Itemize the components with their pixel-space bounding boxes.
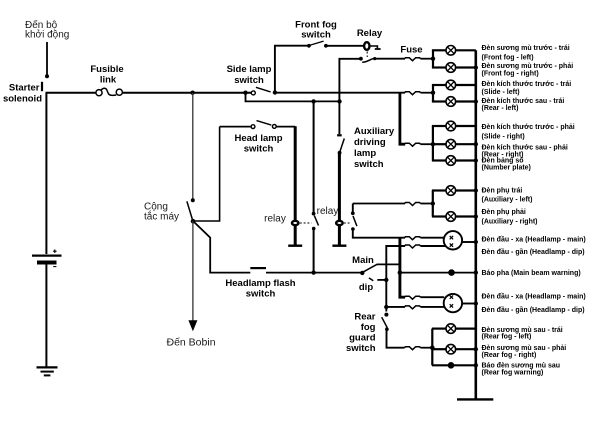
wire: fuse to right side bracket: [421, 143, 433, 145]
svg-text:switch: switch: [234, 75, 264, 86]
node: lamp label 8: [482, 188, 533, 204]
switch: dimmer Main/dip: [360, 264, 377, 281]
wire: dip rail to headlamp2 fuse: [386, 306, 405, 308]
node: lamp label 16: [482, 345, 567, 359]
svg-text:switch: switch: [346, 343, 376, 354]
svg-text:switch: switch: [301, 30, 331, 41]
junction: headlamp2 dip tee: [384, 305, 388, 309]
junction: right side bracket entry: [431, 142, 435, 146]
wire: aux lamp feed: [353, 203, 405, 205]
wire: headlamp2 to bus: [462, 301, 478, 305]
node: Đến bộ khởi động (to starter) label: [25, 19, 69, 41]
relay RLY2 headlamp coil: [292, 221, 299, 225]
svg-text:(Front fog - left): (Front fog - left): [482, 55, 534, 62]
node: Side lamp switch label: [227, 64, 272, 86]
wire: relay3 coil end bar: [332, 244, 346, 246]
indicator: main beam warning lamp: [448, 269, 455, 276]
wire: headlamp1 to bus: [462, 240, 478, 244]
wire: bold drop to right-side lamp fuse: [400, 93, 405, 145]
wire: coil return with end bar: [370, 46, 381, 49]
junction: rear fog bracket entry: [430, 345, 435, 350]
lamp: side rear left: [432, 97, 478, 107]
fuse F5 headlamp1 main: [405, 237, 421, 240]
relay RLY3 aux coil: [336, 221, 343, 225]
switch: ignition Cộng tắc máy: [187, 198, 195, 223]
svg-text:Headlamp flash: Headlamp flash: [225, 278, 295, 289]
junction: side bracket entry: [431, 91, 435, 95]
node: Auxiliary driving lamp switch label: [354, 126, 395, 170]
svg-text:dip: dip: [359, 282, 373, 293]
svg-text:(Auxiliary - left): (Auxiliary - left): [482, 197, 533, 204]
svg-text:solenoid: solenoid: [3, 94, 42, 105]
fuse F9 rear fog: [405, 347, 421, 350]
wire: always-hot lower feed: [246, 93, 340, 102]
ground: bus earth bar: [457, 398, 493, 400]
svg-text:(Rear fog - left): (Rear fog - left): [482, 334, 532, 341]
svg-text:Đèn đầu - xa (Headlamp - main): Đèn đầu - xa (Headlamp - main): [482, 234, 586, 243]
ground: battery earth: [37, 367, 58, 375]
switch: auxiliary driving lamp switch: [337, 135, 344, 154]
svg-text:relay: relay: [264, 214, 286, 225]
lamp: headlamp left H1: [444, 231, 462, 249]
svg-text:lamp: lamp: [354, 148, 376, 159]
junction: relay2 feed tap: [337, 99, 341, 103]
svg-text:(Slide - right): (Slide - right): [482, 134, 525, 141]
svg-text:(Rear fog - right): (Rear fog - right): [482, 352, 537, 359]
fuse F3 side lamps right: [405, 143, 421, 146]
wire: side lamp bracket right trio: [432, 126, 434, 161]
junction: aux bracket entry: [431, 201, 435, 205]
indicator: rear fog warning lamp: [432, 362, 478, 369]
battery BT1: [32, 249, 62, 266]
wire: to front fog fuse: [374, 58, 405, 60]
fuse F8 headlamp2 dip: [405, 306, 421, 309]
starter solenoid terminal bar: [41, 82, 43, 91]
node: lamp label 15: [482, 327, 563, 341]
switch: relay3 aux contact: [351, 211, 357, 230]
junction: warning on bus: [474, 270, 478, 274]
wire: relay2 contact feed: [313, 101, 315, 212]
svg-text:Đèn đầu - gần (Headlamp - dip): Đèn đầu - gần (Headlamp - dip): [482, 305, 585, 314]
switch: headlamp flash switch bar: [250, 267, 266, 269]
svg-text:switch: switch: [246, 289, 276, 300]
node: lamp label 7: [482, 157, 531, 172]
fusible link FL1: [96, 88, 123, 96]
svg-text:(Slide - left): (Slide - left): [482, 89, 520, 96]
fuse F2 side lamps left: [405, 92, 421, 95]
svg-text:Fuse: Fuse: [400, 45, 422, 56]
svg-text:Đèn kích thước trước - trái: Đèn kích thước trước - trái: [482, 81, 572, 88]
svg-text:guard: guard: [349, 333, 376, 344]
wire: relay3 contact upper: [352, 204, 354, 213]
fuse F6 headlamp1 dip: [405, 245, 421, 248]
wire: main hot bus (battery to fusible link): [46, 92, 97, 94]
arrow: to bobin: [188, 320, 197, 331]
lamp: front fog left: [432, 46, 476, 56]
wire: fuse to headlamp2 dip: [421, 306, 447, 308]
svg-text:Đèn đầu - xa (Headlamp - main): Đèn đầu - xa (Headlamp - main): [482, 291, 586, 300]
junction: fog bracket entry: [431, 57, 435, 61]
wire: fog switch to relay coil: [326, 45, 364, 47]
wire: dimmer common: [266, 272, 362, 274]
svg-text:driving: driving: [354, 137, 386, 148]
wire: fuse to aux bracket: [421, 203, 433, 205]
svg-text:(Number plate): (Number plate): [482, 165, 531, 172]
wire: dip rail: [386, 246, 405, 312]
wire: fuse to headlamp1 main: [421, 237, 445, 239]
junction: warning tap on main rail: [398, 270, 403, 275]
svg-text:Đèn sương mù trước - trái: Đèn sương mù trước - trái: [482, 45, 570, 52]
svg-text:Đến Bobin: Đến Bobin: [167, 337, 216, 349]
wire: main beam warning: [400, 272, 476, 274]
switch: relay2 headlamp contact: [312, 212, 319, 231]
wire: dimmer common (flash side): [209, 272, 250, 274]
svg-text:Đèn kích thước trước - phải: Đèn kích thước trước - phải: [482, 124, 575, 131]
junction: relay2 output on dimmer feed: [311, 270, 315, 274]
wire: fuse to fog lamp bracket: [421, 58, 434, 60]
node: lamp label 4: [482, 98, 565, 112]
wire: fuse to headlamp2 main: [421, 296, 445, 298]
node: Starter solenoid label: [3, 83, 42, 105]
wire: fuse to rear fog bracket: [421, 347, 433, 349]
junction: dip contact on dip rail: [384, 278, 388, 282]
lamp: side front right: [432, 121, 476, 131]
svg-text:Đèn sương mù sau - phải: Đèn sương mù sau - phải: [482, 345, 567, 352]
wire: relay2 coil end bar: [288, 244, 302, 246]
svg-text:switch: switch: [244, 144, 274, 155]
wire: head lamp switch to relay2 coil: [294, 126, 297, 245]
svg-text:switch: switch: [354, 159, 384, 170]
dashed actuator link RLY1: [366, 52, 368, 58]
wire: main contact to main rail: [377, 263, 400, 265]
lamp: side rear right: [432, 139, 478, 149]
wire: ignition to head lamp switch: [193, 127, 220, 221]
wire: fuse to headlamp1 dip: [421, 245, 447, 247]
wire: fuse to side lamp bracket: [421, 92, 434, 94]
node: Fusible link label: [90, 64, 123, 86]
svg-text:relay: relay: [317, 206, 339, 217]
switch: head lamp switch: [220, 121, 296, 129]
node: lamp label 1: [482, 45, 570, 61]
lamp: rear fog right: [432, 344, 478, 354]
wire: guard switch to rear fog fuse: [387, 328, 405, 348]
lamp: side front left: [432, 80, 476, 90]
svg-text:Head lamp: Head lamp: [234, 133, 282, 144]
wire: battery to earth: [45, 265, 47, 368]
node: Rear fog guard switch label: [346, 312, 376, 355]
svg-text:link: link: [100, 75, 117, 86]
svg-text:Đèn phụ trái: Đèn phụ trái: [482, 188, 523, 195]
svg-text:Auxiliary: Auxiliary: [354, 126, 395, 137]
fuse F7 headlamp2 main: [405, 296, 421, 299]
fuse F1 front fog: [405, 58, 421, 61]
fuse F4 aux lamps: [405, 203, 421, 206]
junction: always-hot drop tap: [243, 91, 247, 95]
wire: relay3 contact lower to main-beam rail: [353, 228, 405, 238]
wire: main hot bus (fusible link to side lamp switch): [122, 92, 251, 94]
svg-text:Relay: Relay: [357, 28, 383, 39]
wire: ignition to flash switch: [193, 221, 210, 273]
svg-text:Đèn đầu - gần (Headlamp - dip): Đèn đầu - gần (Headlamp - dip): [482, 247, 585, 256]
lamp: number plate: [432, 156, 478, 166]
relay RLY1 front-fog coil: [364, 42, 369, 50]
wire: earth return bus: [474, 50, 477, 399]
wire: relay contact feed from hot riser: [339, 59, 360, 135]
wire: aux switch to relay3 coil: [338, 152, 341, 246]
dashed actuator link RLY2: [300, 222, 312, 224]
wire: switched side-lamp feed: [275, 92, 405, 94]
node: lamp label 17: [482, 362, 561, 376]
svg-text:Đèn sương mù trước - phải: Đèn sương mù trước - phải: [482, 63, 574, 70]
wire: side lamp bracket left pair: [432, 85, 434, 102]
svg-text:(Front fog - right): (Front fog - right): [482, 71, 539, 78]
switch: fog relay contact: [359, 57, 376, 63]
node: lamp label 5: [482, 124, 575, 141]
node: Head lamp switch label: [234, 133, 282, 155]
wire: main beam rail: [400, 238, 405, 298]
svg-text:Rear: Rear: [354, 312, 375, 323]
wire: to bobin: [192, 221, 194, 321]
lamp: front fog right: [432, 63, 478, 73]
node: lamp label 6: [482, 145, 568, 159]
switch: rear fog guard switch: [382, 313, 389, 331]
wire: front fog lamp bracket: [432, 50, 434, 67]
svg-text:Báo pha (Main beam warning): Báo pha (Main beam warning): [482, 270, 581, 277]
svg-text:(Rear - left): (Rear - left): [482, 105, 519, 112]
svg-text:(Rear fog warning): (Rear fog warning): [482, 369, 544, 376]
svg-text:tắc máy: tắc máy: [144, 210, 179, 223]
switch: front fog switch: [307, 41, 328, 48]
wire: aux lamp bracket: [432, 191, 434, 217]
dashed actuator link RLY3: [344, 222, 351, 224]
wire: feed to starter: [45, 42, 49, 78]
lamp: rear fog left: [432, 324, 476, 334]
junction: relay1 feed tap: [311, 99, 315, 103]
junction: ignition switch tap: [190, 91, 194, 95]
wire: ignition riser: [192, 93, 194, 199]
svg-text:Đèn phụ phải: Đèn phụ phải: [482, 209, 526, 216]
svg-text:fog: fog: [361, 322, 376, 333]
svg-text:(Auxiliary - right): (Auxiliary - right): [482, 219, 538, 226]
svg-text:khởi động: khởi động: [25, 29, 69, 41]
wire: dip contact to dip rail: [377, 279, 386, 281]
wire: rear fog bracket: [431, 329, 433, 366]
svg-text:Đèn kích thước sau - phải: Đèn kích thước sau - phải: [482, 145, 568, 152]
svg-text:Báo đèn sương mù sau: Báo đèn sương mù sau: [482, 362, 561, 369]
switch: side lamp switch: [251, 87, 277, 95]
node: Headlamp flash switch label: [225, 278, 295, 300]
svg-text:Fusible: Fusible: [90, 64, 123, 75]
node: lamp label 9: [482, 209, 538, 226]
svg-text:Main: Main: [352, 255, 374, 266]
lamp: auxiliary right: [432, 212, 478, 222]
node: lamp label 3: [482, 81, 572, 96]
wire: front fog branch riser: [275, 46, 307, 93]
svg-text:Đèn bảng số: Đèn bảng số: [482, 157, 525, 165]
lamp: headlamp right H2: [444, 294, 462, 312]
battery BT1 feed wire: [45, 93, 47, 254]
wire: relay2 contact output: [313, 228, 315, 272]
lamp: auxiliary left: [432, 186, 478, 196]
node: Cộng tắc máy label: [144, 202, 179, 223]
node: lamp label 2: [482, 63, 574, 78]
node: Front fog switch label: [295, 20, 337, 41]
svg-text:Starter: Starter: [9, 83, 40, 94]
svg-text:Side lamp: Side lamp: [227, 64, 272, 75]
